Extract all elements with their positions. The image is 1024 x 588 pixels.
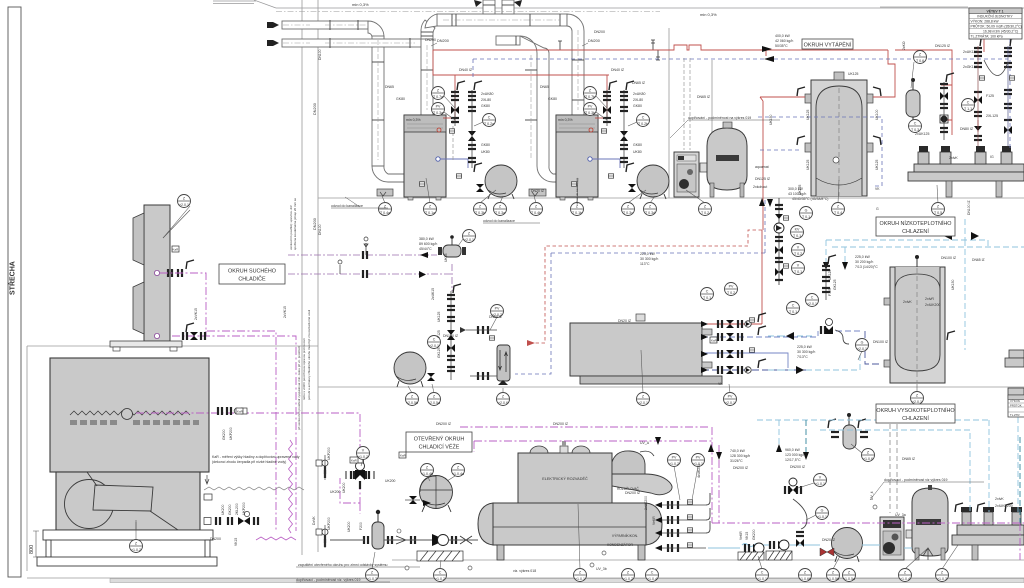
svg-text:C: C: [967, 101, 970, 105]
svg-text:DN150 IZ: DN150 IZ: [443, 334, 459, 338]
svg-text:GK80: GK80: [633, 143, 642, 147]
svg-text:2xIvK: 2xIvK: [949, 156, 958, 160]
svg-text:+2.0.5a: +2.0.5a: [428, 401, 440, 405]
svg-text:nebo s vnitřní povrchovou úpra: nebo s vnitřní povrchovou úpravou proti …: [302, 338, 306, 400]
svg-text:+1.0.4b: +1.0.4b: [421, 472, 433, 476]
svg-text:30 300 kg/h: 30 300 kg/h: [640, 257, 658, 261]
svg-text:DN65 IZ: DN65 IZ: [972, 258, 985, 262]
svg-text:T 0.1: T 0.1: [794, 270, 802, 274]
svg-text:12/17,5°C: 12/17,5°C: [785, 458, 801, 462]
svg-text:G: G: [805, 209, 808, 213]
svg-text:T 0.4: T 0.4: [834, 211, 842, 215]
svg-text:F200: F200: [359, 522, 363, 530]
svg-text:2xIvR: 2xIvR: [925, 297, 934, 301]
svg-text:+1.0.5a: +1.0.5a: [843, 577, 855, 581]
svg-text:4xUK200: 4xUK200: [697, 464, 701, 478]
svg-text:VÝKON: 288,8 kW: VÝKON: 288,8 kW: [971, 19, 1000, 23]
svg-text:45/40/35°C (45/38/8°C): 45/40/35°C (45/38/8°C): [792, 197, 828, 201]
svg-text:PV: PV: [495, 307, 500, 311]
svg-text:KaR: KaR: [173, 248, 180, 252]
svg-text:128 300 kg/h: 128 300 kg/h: [730, 454, 750, 458]
svg-text:potrubí a armatury chladného o: potrubí a armatury chladného okruhu musí…: [307, 309, 311, 400]
svg-text:+1.0.2: +1.0.2: [623, 577, 633, 581]
svg-text:DN65: DN65: [385, 85, 394, 89]
svg-text:113°C: 113°C: [640, 262, 650, 266]
svg-text:+1.0.1: +1.0.1: [815, 482, 825, 486]
svg-text:GK200: GK200: [222, 429, 226, 440]
svg-text:DN125 IZ: DN125 IZ: [935, 44, 951, 48]
svg-text:GK80: GK80: [633, 104, 642, 108]
svg-text:+2.0.1: +2.0.1: [725, 401, 735, 405]
svg-text:PV: PV: [588, 105, 593, 109]
svg-text:+1.0.3: +1.0.3: [367, 577, 377, 581]
svg-text:doplňování - podmíněnost na vý: doplňování - podmíněnost na výkres 019: [688, 116, 751, 120]
svg-text:G: G: [861, 341, 864, 345]
svg-text:min 0,3%: min 0,3%: [352, 2, 369, 7]
svg-text:GK80: GK80: [548, 97, 557, 101]
svg-text:225,0 kW: 225,0 kW: [640, 252, 655, 256]
svg-text:OKRUH VYSOKOTEPLOTNÍHO: OKRUH VYSOKOTEPLOTNÍHO: [876, 407, 954, 414]
svg-text:DN40 IZ: DN40 IZ: [611, 68, 625, 72]
svg-text:960,0 kW: 960,0 kW: [785, 448, 800, 452]
svg-text:+1.0.1: +1.0.1: [757, 577, 767, 581]
svg-text:7/13°C: 7/13°C: [797, 355, 808, 359]
svg-text:DN100 IZ: DN100 IZ: [873, 340, 889, 344]
svg-text:UK125: UK125: [806, 110, 810, 120]
svg-text:T 0.7a: T 0.7a: [433, 95, 443, 99]
svg-text:UK125: UK125: [828, 270, 832, 280]
svg-text:2xUK200: 2xUK200: [644, 496, 648, 510]
svg-text:UKP200: UKP200: [327, 447, 331, 460]
svg-text:T 0.2: T 0.2: [701, 211, 709, 215]
svg-text:T 0.7b: T 0.7b: [585, 95, 595, 99]
svg-text:VÝPARNÍK/KON.: VÝPARNÍK/KON.: [612, 534, 638, 538]
svg-text:PRŮTOK: PRŮTOK: [1010, 403, 1022, 408]
svg-text:VeKR: VeKR: [739, 531, 743, 540]
svg-text:IG: IG: [990, 155, 994, 159]
svg-text:2xUK125: 2xUK125: [963, 50, 977, 54]
svg-text:2xVK15: 2xVK15: [194, 308, 198, 320]
svg-text:CHLAZENÍ: CHLAZENÍ: [902, 228, 929, 235]
svg-text:C: C: [642, 116, 645, 120]
svg-text:DN65 IZ: DN65 IZ: [697, 95, 711, 99]
svg-text:30 200 kg/h: 30 200 kg/h: [855, 260, 873, 264]
svg-text:CHLADIČE: CHLADIČE: [238, 276, 266, 283]
svg-text:2xIvK: 2xIvK: [903, 300, 912, 304]
svg-text:T 0.1a: T 0.1a: [425, 211, 435, 215]
svg-text:T 0.2a: T 0.2a: [484, 122, 494, 126]
svg-text:VK15: VK15: [745, 532, 749, 540]
svg-text:KaR: KaR: [400, 454, 407, 458]
svg-text:T 0.4b: T 0.4b: [531, 211, 541, 215]
svg-text:(dekoncí zhodu čerpadla při ní: (dekoncí zhodu čerpadla při nízké hladin…: [212, 460, 286, 464]
svg-text:2XL80: 2XL80: [481, 98, 491, 102]
svg-text:16,98 m3/h (45/30,2°C): 16,98 m3/h (45/30,2°C): [983, 29, 1018, 33]
svg-text:odvod do kanalizace: odvod do kanalizace: [575, 177, 579, 205]
svg-text:při venkovním prostředí vyspád: při venkovním prostředí vyspádovat min. …: [297, 346, 301, 430]
svg-text:DN65: DN65: [540, 85, 549, 89]
svg-text:VK: VK: [718, 382, 723, 386]
svg-text:GK200: GK200: [228, 504, 232, 515]
svg-text:G: G: [876, 207, 879, 211]
svg-text:UK80: UK80: [481, 150, 490, 154]
svg-text:VeKR: VeKR: [652, 516, 656, 525]
svg-text:UK65: UK65: [444, 253, 448, 262]
svg-text:DN100: DN100: [318, 49, 322, 60]
svg-text:2xUK15: 2xUK15: [431, 288, 435, 300]
svg-text:TL.ZTR: TL.ZTR: [1010, 413, 1019, 417]
svg-text:INDUKČNÍ JEDNOTKY: INDUKČNÍ JEDNOTKY: [977, 13, 1013, 18]
svg-text:UK200: UK200: [385, 479, 395, 483]
svg-text:F125: F125: [437, 330, 441, 338]
svg-text:min 0,3%: min 0,3%: [558, 118, 573, 122]
svg-text:+1.0.6b: +1.0.6b: [799, 577, 811, 581]
svg-text:doplňovací - podmíněnost viz.: doplňovací - podmíněnost viz. výkres 019: [296, 578, 360, 582]
svg-text:VĚTEV T 1: VĚTEV T 1: [987, 8, 1004, 13]
svg-text:UK100: UK100: [875, 110, 879, 120]
svg-text:T 0.1: T 0.1: [793, 234, 801, 238]
svg-text:DN125 IZ: DN125 IZ: [755, 177, 771, 181]
svg-text:DN200 IZ: DN200 IZ: [553, 422, 569, 426]
svg-text:C: C: [433, 338, 436, 342]
svg-text:+2.0.1: +2.0.1: [807, 302, 817, 306]
svg-text:aquamat: aquamat: [755, 165, 769, 169]
svg-text:OKRUH NÍZKOTEPLOTNÍHO: OKRUH NÍZKOTEPLOTNÍHO: [880, 220, 952, 227]
svg-text:800: 800: [29, 545, 35, 554]
svg-text:+1.0.6: +1.0.6: [863, 457, 873, 461]
svg-text:DN200: DN200: [588, 39, 600, 43]
svg-text:G: G: [821, 509, 824, 513]
svg-text:C: C: [706, 290, 709, 294]
svg-text:T 0.3a: T 0.3a: [495, 211, 505, 215]
svg-text:380,0 kW: 380,0 kW: [419, 237, 434, 241]
svg-text:123 000 kg/h: 123 000 kg/h: [785, 453, 805, 457]
svg-text:odvod do kanalizace: odvod do kanalizace: [483, 219, 515, 223]
svg-text:UKP200: UKP200: [229, 427, 233, 440]
svg-text:UK125: UK125: [798, 185, 802, 195]
svg-text:VK: VK: [875, 187, 880, 191]
svg-text:DN200 IZ: DN200 IZ: [625, 491, 641, 495]
svg-text:UK80: UK80: [633, 150, 642, 154]
svg-text:zapuštění otevřeného okruhu pr: zapuštění otevřeného okruhu pro zimní od…: [298, 563, 388, 567]
svg-text:DN200 IZ: DN200 IZ: [436, 422, 452, 426]
svg-text:GK80: GK80: [396, 97, 405, 101]
svg-text:CHLADICÍ VĚŽE: CHLADICÍ VĚŽE: [419, 443, 460, 451]
svg-text:2XL80: 2XL80: [633, 98, 643, 102]
svg-text:UK200: UK200: [342, 483, 346, 493]
svg-text:VK15: VK15: [234, 538, 238, 546]
svg-text:C: C: [488, 116, 491, 120]
svg-text:+1.0.1: +1.0.1: [817, 515, 827, 519]
svg-text:DN100 IZ: DN100 IZ: [967, 200, 971, 215]
svg-text:STŘECHA: STŘECHA: [8, 261, 17, 295]
svg-text:OKRUH VYTÁPĚNÍ: OKRUH VYTÁPĚNÍ: [804, 40, 852, 48]
svg-text:2xIvK: 2xIvK: [995, 497, 1004, 501]
svg-text:UV_A: UV_A: [640, 441, 650, 445]
svg-text:2KL200: 2KL200: [235, 503, 239, 515]
svg-text:F125: F125: [986, 94, 994, 98]
svg-text:DN20 IZ: DN20 IZ: [618, 319, 632, 323]
svg-text:T 0.3c: T 0.3c: [623, 211, 633, 215]
svg-text:DN200: DN200: [313, 218, 317, 230]
svg-text:T 0.1: T 0.1: [789, 310, 797, 314]
svg-text:+1.0.2: +1.0.2: [131, 548, 141, 552]
svg-text:+2.0.5b: +2.0.5b: [406, 401, 418, 405]
svg-text:C: C: [792, 304, 795, 308]
svg-text:2xVK15: 2xVK15: [283, 306, 287, 318]
svg-text:DN80 IZ: DN80 IZ: [960, 127, 974, 131]
svg-text:doplňovací - podmíněnost viz v: doplňovací - podmíněnost viz výkres 019: [884, 478, 947, 482]
svg-text:UK200: UK200: [221, 505, 225, 515]
svg-text:UKP200: UKP200: [242, 502, 246, 515]
svg-text:OTEVŘENÝ OKRUH: OTEVŘENÝ OKRUH: [414, 435, 465, 443]
svg-text:+2.0.1: +2.0.1: [464, 238, 474, 242]
svg-text:+2.0.6: +2.0.6: [498, 401, 508, 405]
svg-text:PRŮTOK: 50,09 m3/h (35/30,2°C): PRŮTOK: 50,09 m3/h (35/30,2°C): [971, 23, 1022, 28]
svg-text:DN65 IZ: DN65 IZ: [902, 457, 916, 461]
svg-text:C: C: [811, 296, 814, 300]
svg-text:T 0.2: T 0.2: [794, 252, 802, 256]
svg-text:T 0.5: T 0.5: [934, 211, 942, 215]
svg-text:OKRUH SUCHÉHO: OKRUH SUCHÉHO: [228, 268, 276, 275]
svg-text:VÝKON: VÝKON: [1010, 399, 1020, 403]
svg-text:CHLAZENÍ: CHLAZENÍ: [902, 415, 929, 422]
svg-text:T 0.2b: T 0.2b: [638, 122, 648, 126]
svg-text:2xUK125: 2xUK125: [915, 132, 929, 136]
svg-text:KaR: KaR: [351, 459, 358, 463]
svg-text:C: C: [914, 122, 917, 126]
svg-text:UK125: UK125: [875, 160, 879, 170]
svg-text:KaR: KaR: [711, 339, 718, 343]
svg-text:31/26°C: 31/26°C: [730, 459, 743, 463]
svg-text:UK125: UK125: [848, 72, 858, 76]
svg-text:T 0.1: T 0.1: [802, 215, 810, 219]
svg-text:ELEKTRICKÝ ROZVADĚČ: ELEKTRICKÝ ROZVADĚČ: [542, 476, 588, 481]
svg-text:DN200 IZ: DN200 IZ: [733, 466, 749, 470]
svg-text:GK125: GK125: [833, 279, 837, 290]
svg-text:+1.0.3: +1.0.3: [937, 577, 947, 581]
svg-text:min 0,3%: min 0,3%: [406, 118, 421, 122]
svg-text:UV_3b: UV_3b: [596, 567, 607, 571]
svg-text:DN40 IZ: DN40 IZ: [459, 68, 473, 72]
svg-text:UK200: UK200: [347, 522, 351, 532]
svg-text:T 0.3b: T 0.3b: [585, 111, 595, 115]
svg-text:+2.0.1: +2.0.1: [429, 344, 439, 348]
svg-text:+1.0.1: +1.0.1: [575, 577, 585, 581]
svg-text:F125: F125: [828, 288, 832, 296]
svg-text:DN200: DN200: [594, 30, 605, 34]
svg-text:T 0.2: T 0.2: [727, 291, 735, 295]
svg-text:viz. výkres 018: viz. výkres 018: [513, 569, 536, 573]
svg-text:KV: KV: [795, 228, 800, 232]
svg-text:KaR - měření výšky hladiny a d: KaR - měření výšky hladiny a doplňování …: [212, 455, 300, 459]
svg-text:DxVK: DxVK: [312, 516, 316, 525]
svg-text:+1.0.5b: +1.0.5b: [827, 577, 839, 581]
svg-text:UV_3a: UV_3a: [895, 513, 906, 517]
svg-text:+2.0.1: +2.0.1: [857, 347, 867, 351]
svg-text:GK80: GK80: [481, 143, 490, 147]
svg-text:venkovním použité): upevňov. d: venkovním použité): upevňov. drž: [289, 205, 293, 250]
svg-text:+1.0.4: +1.0.4: [647, 577, 657, 581]
svg-text:740,0 kW: 740,0 kW: [730, 449, 745, 453]
svg-text:PV: PV: [436, 105, 441, 109]
svg-text:+1.0.2: +1.0.2: [358, 455, 368, 459]
svg-text:2xIUK200: 2xIUK200: [925, 303, 940, 307]
svg-text:min 0,3%: min 0,3%: [700, 12, 717, 17]
svg-text:T 0.1: T 0.1: [703, 296, 711, 300]
svg-text:+2.0.1: +2.0.1: [179, 203, 189, 207]
svg-text:+1.0.4a: +1.0.4a: [452, 472, 464, 476]
svg-text:T 0.1b: T 0.1b: [572, 211, 582, 215]
svg-text:UKP200: UKP200: [327, 517, 331, 530]
svg-text:DN200: DN200: [313, 103, 317, 115]
svg-text:2xGK125: 2xGK125: [963, 65, 978, 69]
svg-text:TL.ZTRÁTA: 100 kPa: TL.ZTRÁTA: 100 kPa: [971, 34, 1003, 38]
svg-text:UK125: UK125: [437, 312, 441, 322]
svg-text:T 0.3a: T 0.3a: [433, 111, 443, 115]
svg-text:45/44°C: 45/44°C: [419, 247, 432, 251]
svg-text:2XL125: 2XL125: [986, 114, 998, 118]
svg-text:DN100: DN100: [318, 224, 322, 235]
svg-text:KaR: KaR: [237, 410, 244, 414]
svg-text:400,0 kW: 400,0 kW: [775, 34, 790, 38]
svg-text:T 0.4a: T 0.4a: [380, 211, 390, 215]
svg-text:UK125: UK125: [806, 160, 810, 170]
svg-text:T 1.1: T 1.1: [964, 107, 972, 111]
svg-text:89 600 kg/h: 89 600 kg/h: [419, 242, 437, 246]
svg-text:50/35°C: 50/35°C: [775, 44, 788, 48]
svg-text:PV: PV: [672, 456, 677, 460]
svg-text:DN20 IZ: DN20 IZ: [822, 538, 836, 542]
svg-text:PV: PV: [728, 395, 733, 399]
svg-text:7/13 (14/20)°C: 7/13 (14/20)°C: [855, 265, 878, 269]
svg-text:+1.0.4: +1.0.4: [900, 577, 910, 581]
svg-text:C: C: [651, 571, 654, 575]
svg-text:2xIUKP200: 2xIUKP200: [995, 504, 1013, 508]
svg-text:30 300 kg/h: 30 300 kg/h: [797, 350, 815, 354]
svg-text:spočtena koudelnáma jiznap 20: spočtena koudelnáma jiznap 20 mm se: [293, 198, 297, 250]
svg-text:GK200: GK200: [752, 529, 756, 540]
svg-text:DN65 IZ: DN65 IZ: [632, 81, 646, 85]
svg-text:+1.0.2: +1.0.2: [669, 462, 679, 466]
svg-text:UK150: UK150: [951, 280, 955, 290]
svg-text:T 0.6: T 0.6: [916, 59, 924, 63]
svg-text:PV: PV: [696, 456, 701, 460]
svg-text:2xUK80: 2xUK80: [481, 92, 494, 96]
svg-text:DN65 IZ: DN65 IZ: [489, 315, 503, 319]
svg-text:DN200 IZ: DN200 IZ: [790, 465, 806, 469]
svg-text:DN200: DN200: [425, 38, 436, 42]
svg-text:GK80: GK80: [481, 104, 490, 108]
svg-text:DN100 IZ: DN100 IZ: [941, 256, 957, 260]
svg-text:PV: PV: [729, 285, 734, 289]
svg-text:C: C: [439, 571, 442, 575]
svg-text:T 0.3b: T 0.3b: [475, 211, 485, 215]
svg-text:KONDENZÁTOR: KONDENZÁTOR: [607, 543, 633, 547]
svg-text:225,0 kW: 225,0 kW: [797, 345, 812, 349]
svg-text:225,0 kW: 225,0 kW: [855, 255, 870, 259]
svg-text:T 0.3d: T 0.3d: [645, 211, 655, 215]
svg-text:+2.0.1: +2.0.1: [638, 401, 648, 405]
svg-text:DN200: DN200: [437, 39, 449, 43]
svg-text:DN200: DN200: [210, 537, 221, 541]
svg-text:GK125: GK125: [437, 347, 441, 358]
svg-text:42 060 kg/h: 42 060 kg/h: [775, 39, 793, 43]
svg-text:2xkohout: 2xkohout: [753, 185, 767, 189]
svg-text:C: C: [761, 571, 764, 575]
svg-text:2xUK80: 2xUK80: [633, 92, 646, 96]
svg-text:UK200: UK200: [330, 490, 340, 494]
svg-text:+2.0.1: +2.0.1: [912, 400, 922, 404]
svg-text:+1.0.2: +1.0.2: [435, 577, 445, 581]
svg-text:2xKO: 2xKO: [902, 41, 906, 50]
